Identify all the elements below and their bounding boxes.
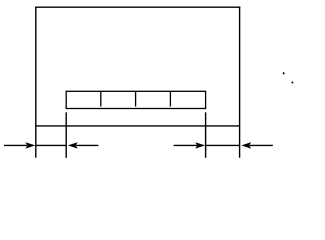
extension line from pin strip right edge [205,112,207,158]
right dimension arrowhead pointing left [241,142,251,148]
right dimension arrowhead pointing right [195,142,205,148]
stray dot upper [283,72,285,74]
left dimension right tail [76,144,98,146]
pin strip outline [66,91,205,108]
package outline left edge (extends down as extension line) [35,7,37,158]
package outline bottom edge [36,125,240,127]
extension line from pin strip left edge [65,112,67,158]
left dimension arrowhead pointing left [68,142,78,148]
package outline top edge [35,6,240,8]
stray dot lower [291,82,293,84]
left dimension span line [36,144,66,146]
right dimension span line [206,144,240,146]
left dimension arrowhead pointing right [25,142,35,148]
right dimension leader tail [174,144,197,146]
left dimension leader tail [4,144,27,146]
pin strip divider 3 [169,91,171,106]
pin strip divider 1 [100,91,102,106]
right dimension right tail [250,144,273,146]
pin strip divider 2 [135,91,137,106]
package outline right edge (extends down as extension line) [239,7,241,158]
